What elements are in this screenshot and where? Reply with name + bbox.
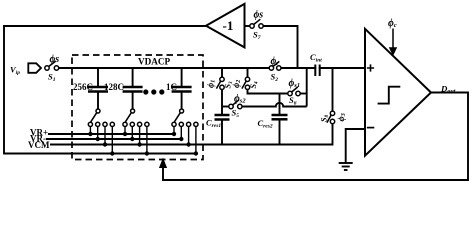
ground (339, 163, 353, 170)
svg-text:S4: S4 (249, 81, 259, 88)
svg-text:1C: 1C (166, 82, 177, 92)
wire S4 elbow to S6 (248, 90, 288, 94)
svg-text:S1: S1 (48, 72, 56, 84)
svg-text:Vip: Vip (10, 65, 20, 77)
svg-text:ϕs1: ϕs1 (289, 78, 301, 89)
wire comparator output feedback (163, 93, 468, 181)
rail VR- (46, 138, 181, 140)
label + input (367, 64, 374, 71)
svg-text:Cint: Cint (310, 52, 322, 64)
svg-text:-1: -1 (223, 18, 234, 33)
capacitor Cres1 (215, 115, 230, 120)
switch S4 (247, 68, 249, 77)
switch S8 (332, 68, 334, 111)
capacitor Cint (315, 65, 319, 77)
arrow feedback into DAC logic (159, 158, 167, 168)
svg-text:ϕs: ϕs (254, 10, 264, 21)
svg-text:S6: S6 (289, 95, 297, 107)
label - input (367, 127, 374, 129)
rail VR+ (48, 133, 174, 135)
svg-text:S7: S7 (253, 30, 261, 42)
switch S7 (250, 24, 263, 28)
switch S2 (269, 66, 281, 70)
svg-text:256C: 256C (73, 82, 93, 92)
svg-text:VCM: VCM (28, 140, 50, 150)
arrow clock into comparator (392, 29, 394, 49)
svg-text:S5: S5 (232, 108, 240, 120)
switch bank under 256C (88, 109, 114, 127)
switch bank under 1C (172, 109, 198, 127)
wire S7 output to summing node (262, 26, 298, 68)
svg-text:ϕ2: ϕ2 (231, 80, 242, 88)
capacitor Cres2 (279, 94, 281, 116)
svg-text:ϕ1: ϕ1 (206, 80, 217, 88)
svg-text:ϕc: ϕc (388, 18, 397, 29)
svg-text:Cres2: Cres2 (258, 118, 273, 130)
svg-text:ϕ3: ϕ3 (336, 113, 347, 121)
svg-text:VDACP: VDACP (138, 57, 171, 67)
switch S3 (221, 68, 223, 77)
wire feedback top-left loop (4, 26, 206, 154)
capacitor 256C (97, 68, 99, 109)
svg-text:ϕr: ϕr (271, 56, 280, 67)
input pad symbol (28, 63, 41, 73)
dashed box VDACP (72, 55, 203, 160)
latch symbol inside comparator (378, 87, 401, 104)
svg-text:S8: S8 (320, 115, 330, 122)
wire junction vertical (306, 68, 308, 107)
dots ellipsis between caps (143, 89, 164, 94)
switch S6 (288, 91, 300, 95)
svg-text:128C: 128C (104, 82, 124, 92)
switch bank under 128C (123, 109, 149, 127)
wire main node segment S1 to S2 (59, 67, 270, 69)
capacitor 1C (181, 68, 183, 109)
capacitor 128C (132, 68, 134, 109)
wire S6 to junction (300, 93, 307, 95)
svg-text:ϕs2: ϕs2 (234, 94, 246, 105)
wire main node segment S2 to Cint (281, 67, 315, 69)
op-amp -1 gain inverting amplifier (206, 4, 245, 48)
wire S3 to Cres1 (221, 90, 223, 116)
svg-text:S2: S2 (271, 72, 279, 84)
wire main node segment Cint to comparator (320, 67, 365, 69)
wire minus input to ground (346, 129, 365, 163)
switch S5 (222, 106, 229, 108)
comparator U1 (365, 29, 431, 156)
wire S5 to junction with hop over Cres2 wire (242, 103, 307, 107)
rail VCM and wire to S8 (50, 124, 333, 145)
switch S1 (45, 66, 59, 70)
svg-text:ϕs: ϕs (50, 54, 60, 65)
